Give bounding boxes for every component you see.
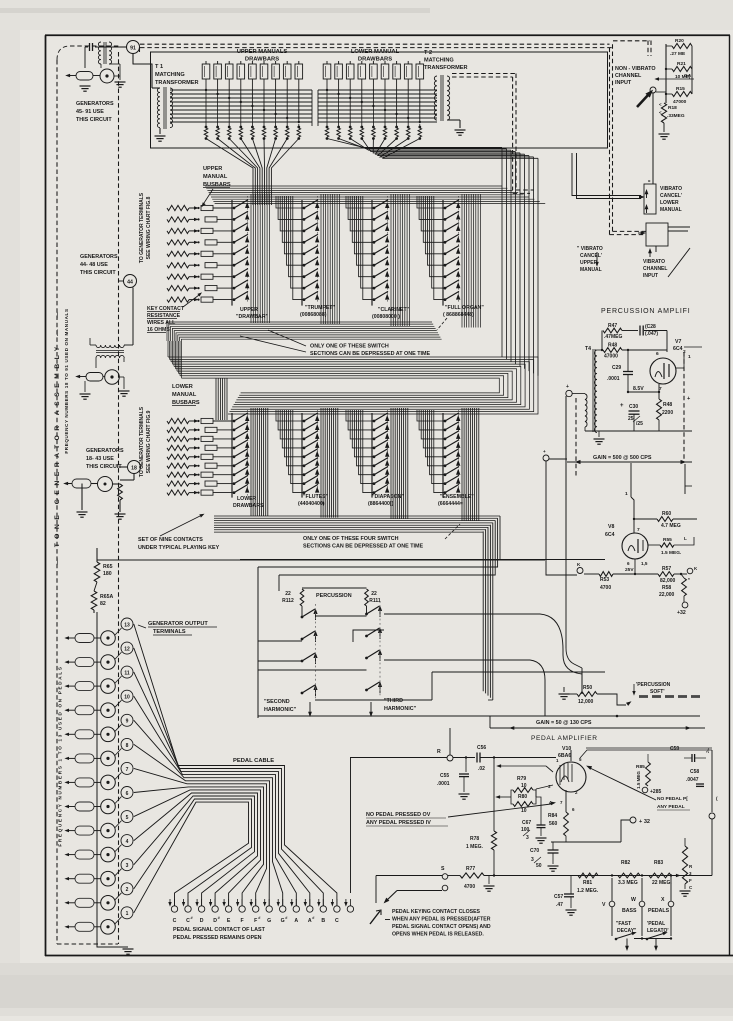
svg-text:1 MEG.: 1 MEG. <box>466 844 484 850</box>
svg-text:V: V <box>602 902 606 908</box>
svg-text:SECTIONS CAN BE DEPRESSED AT O: SECTIONS CAN BE DEPRESSED AT ONE TIME <box>303 544 424 550</box>
svg-text:R84: R84 <box>548 813 557 819</box>
svg-text:UPPER: UPPER <box>240 307 258 313</box>
svg-text:R79: R79 <box>517 776 526 782</box>
svg-text:TERMINALS: TERMINALS <box>153 629 186 635</box>
svg-text:D: D <box>200 918 204 924</box>
svg-text:R21: R21 <box>677 61 686 67</box>
svg-text:3: 3 <box>526 835 529 841</box>
svg-text:(00808000 ): (00808000 ) <box>372 314 400 320</box>
svg-text:VIBRATO: VIBRATO <box>660 186 682 192</box>
svg-text:F: F <box>689 878 692 883</box>
svg-text:.47MEG: .47MEG <box>604 334 622 340</box>
svg-text:"ENSEMBLE": "ENSEMBLE" <box>440 494 474 500</box>
svg-text:T 1: T 1 <box>155 64 163 70</box>
svg-text:4700: 4700 <box>464 884 475 890</box>
svg-text:SEE WIRING CHART FIG.9: SEE WIRING CHART FIG.9 <box>146 410 152 473</box>
svg-text:"DIAPASON": "DIAPASON" <box>372 494 404 500</box>
svg-text:GENERATOR OUTPUT: GENERATOR OUTPUT <box>148 621 208 627</box>
svg-text:100: 100 <box>521 827 530 833</box>
svg-text:(.047): (.047) <box>645 331 658 337</box>
svg-text:A: A <box>294 918 298 924</box>
svg-text:3: 3 <box>531 857 534 863</box>
svg-text:PERCUSSION AMPLIFI: PERCUSSION AMPLIFI <box>601 308 690 315</box>
svg-text:NON - VIBRATO: NON - VIBRATO <box>615 66 656 72</box>
svg-text:PEDAL SIGNAL CONTACT OPENS) AN: PEDAL SIGNAL CONTACT OPENS) AND <box>392 924 491 930</box>
svg-text:( 868868448): ( 868868448) <box>443 312 474 318</box>
svg-text:PEDAL SIGNAL CONTACT OF LAST: PEDAL SIGNAL CONTACT OF LAST <box>173 927 266 933</box>
svg-text:E: E <box>227 918 231 924</box>
svg-text:22: 22 <box>285 591 291 597</box>
svg-text:GENERATORS: GENERATORS <box>86 448 124 454</box>
svg-text:.02: .02 <box>478 766 485 772</box>
svg-text:C58: C58 <box>690 769 699 775</box>
svg-text:L: L <box>684 536 687 541</box>
svg-text:V10: V10 <box>562 746 571 752</box>
svg-text:.27 ME: .27 ME <box>670 51 686 57</box>
svg-text:ONLY ONE OF THESE FOUR SWITCH: ONLY ONE OF THESE FOUR SWITCH <box>303 536 399 542</box>
svg-text:PEDAL CABLE: PEDAL CABLE <box>233 758 274 764</box>
svg-text:UPPER: UPPER <box>580 260 598 266</box>
svg-text:44: 44 <box>127 280 133 286</box>
svg-text:HARMONIC": HARMONIC" <box>384 706 417 712</box>
svg-text:22 MEG.: 22 MEG. <box>652 880 672 886</box>
svg-text:R57: R57 <box>662 566 671 572</box>
svg-text:GENERATORS: GENERATORS <box>76 101 114 107</box>
svg-text:TO GENERATOR TERMINALS: TO GENERATOR TERMINALS <box>139 192 145 263</box>
svg-text:.47: .47 <box>556 902 563 908</box>
svg-text:R48: R48 <box>663 402 672 408</box>
svg-text:C56: C56 <box>477 745 486 751</box>
svg-text:CANCEL': CANCEL' <box>580 253 602 259</box>
svg-text:'PEDAL: 'PEDAL <box>647 921 665 927</box>
svg-text:3.3 MEG: 3.3 MEG <box>618 880 638 886</box>
svg-text:VIBRATO: VIBRATO <box>643 259 665 265</box>
svg-text:LOWER: LOWER <box>172 384 193 390</box>
svg-text:THIS CIRCUIT: THIS CIRCUIT <box>76 117 112 123</box>
svg-text:"FULL ORGAN": "FULL ORGAN" <box>445 305 484 311</box>
svg-text:C: C <box>335 918 339 924</box>
svg-text:,(: ,( <box>706 748 709 754</box>
svg-text:GENERATORS: GENERATORS <box>80 254 118 260</box>
svg-text:13: 13 <box>124 622 130 628</box>
svg-text:R85: R85 <box>636 764 645 770</box>
svg-text:WHEN ANY PEDAL IS PRESSED(AFTE: WHEN ANY PEDAL IS PRESSED(AFTER <box>392 917 491 923</box>
svg-text:4700: 4700 <box>600 585 611 591</box>
svg-text:82,000: 82,000 <box>660 578 676 584</box>
svg-text:*: * <box>688 577 690 583</box>
svg-text:SET OF NINE CONTACTS: SET OF NINE CONTACTS <box>138 537 203 543</box>
svg-text:DRAWBARS: DRAWBARS <box>233 503 264 509</box>
svg-text:5: 5 <box>126 815 129 821</box>
svg-text:6C4: 6C4 <box>605 532 615 538</box>
svg-text:BASS: BASS <box>622 908 637 914</box>
svg-text:FREQUENCY NUMBERS 18 TO 91 USE: FREQUENCY NUMBERS 18 TO 91 USED ON MANUA… <box>64 308 69 453</box>
svg-text:R77: R77 <box>466 866 475 872</box>
svg-text:<: < <box>659 102 662 107</box>
svg-text:WIRES ALL: WIRES ALL <box>147 320 176 326</box>
svg-text:18- 43 USE: 18- 43 USE <box>86 456 114 462</box>
svg-text:1: 1 <box>126 911 129 917</box>
svg-text:T4: T4 <box>585 346 591 352</box>
svg-text:.0047: .0047 <box>686 777 699 783</box>
svg-text:TRANSFORMER: TRANSFORMER <box>424 65 468 71</box>
svg-text:82: 82 <box>100 601 106 607</box>
svg-text:6BA6: 6BA6 <box>558 753 571 759</box>
svg-text:1.5 MEG.: 1.5 MEG. <box>661 550 681 556</box>
svg-text:8.5V: 8.5V <box>633 386 644 392</box>
svg-text:R80: R80 <box>518 794 527 800</box>
svg-text:44- 48 USE: 44- 48 USE <box>80 262 108 268</box>
svg-text:.33MEG: .33MEG <box>667 113 685 119</box>
svg-text:SOFT': SOFT' <box>650 689 665 695</box>
svg-text:ANY PEDAL: ANY PEDAL <box>657 804 685 810</box>
svg-text:+ 32: + 32 <box>639 819 650 825</box>
svg-text:<: < <box>659 110 662 115</box>
svg-text:CHANNEL: CHANNEL <box>615 73 642 79</box>
svg-text:UNDER TYPICAL PLAYING KEY: UNDER TYPICAL PLAYING KEY <box>138 545 220 551</box>
svg-text:" VIBRATO: " VIBRATO <box>577 246 603 252</box>
svg-text:+: + <box>566 384 569 390</box>
svg-text:.0001: .0001 <box>607 376 620 382</box>
svg-text:LOWER: LOWER <box>237 496 257 502</box>
svg-text:TRANSFORMER: TRANSFORMER <box>155 80 199 86</box>
svg-text:25: 25 <box>628 416 634 422</box>
svg-text:NO PEDAL PRESSED OV: NO PEDAL PRESSED OV <box>366 812 431 818</box>
svg-text:LOWER: LOWER <box>660 200 679 206</box>
svg-text:V8: V8 <box>608 524 614 530</box>
svg-text:THIS CIRCUIT: THIS CIRCUIT <box>80 270 116 276</box>
svg-text:V7: V7 <box>675 339 681 345</box>
svg-text:W: W <box>631 897 636 903</box>
svg-text:3: 3 <box>126 863 129 869</box>
svg-text:OPENS WHEN PEDAL IS RELEASED.: OPENS WHEN PEDAL IS RELEASED. <box>392 932 484 938</box>
svg-text:CHANNEL: CHANNEL <box>643 266 667 272</box>
svg-text:BUSBARS: BUSBARS <box>203 182 231 188</box>
svg-text:4.7 MEG: 4.7 MEG <box>661 523 681 529</box>
svg-text:R60: R60 <box>662 511 671 517</box>
svg-text:KEY CONTACT: KEY CONTACT <box>147 306 185 312</box>
svg-text:MATCHING: MATCHING <box>424 58 454 64</box>
svg-text:S: S <box>441 866 445 872</box>
svg-text:DRAWBARS: DRAWBARS <box>245 57 279 63</box>
svg-text:1.2 MEG.: 1.2 MEG. <box>577 888 599 894</box>
svg-text:2200: 2200 <box>662 410 673 416</box>
svg-text:22,000: 22,000 <box>659 592 675 598</box>
svg-text:22: 22 <box>371 591 377 597</box>
svg-text:18: 18 <box>131 466 137 472</box>
svg-text:R18: R18 <box>668 105 677 111</box>
svg-text:UPPER: UPPER <box>203 166 222 172</box>
svg-text:+: + <box>620 403 624 409</box>
svg-text:LOWER MANUAL: LOWER MANUAL <box>351 49 400 55</box>
svg-text:PEDAL KEYING CONTACT CLOSES: PEDAL KEYING CONTACT CLOSES <box>392 909 481 915</box>
svg-text:R112: R112 <box>282 598 294 604</box>
svg-text:B: B <box>321 918 325 924</box>
svg-text:"THIRD: "THIRD <box>384 698 403 704</box>
svg-text:C55: C55 <box>440 773 449 779</box>
svg-text:ANY PEDAL PRESSED IV: ANY PEDAL PRESSED IV <box>366 820 431 826</box>
svg-text:GAIN = 500 @ 500 CPS: GAIN = 500 @ 500 CPS <box>593 455 652 461</box>
svg-text:T 2: T 2 <box>424 50 432 56</box>
svg-text:R65: R65 <box>103 564 113 570</box>
svg-text:"DRAWBAR": "DRAWBAR" <box>236 314 269 320</box>
svg-text:R55: R55 <box>663 537 672 543</box>
svg-text:MANUAL: MANUAL <box>203 174 228 180</box>
svg-text:560: 560 <box>549 821 558 827</box>
svg-text:INPUT: INPUT <box>643 273 658 279</box>
svg-text:HARMONIC": HARMONIC" <box>264 707 297 713</box>
svg-text:R20: R20 <box>675 38 684 44</box>
svg-text:8: 8 <box>126 743 129 749</box>
svg-text:F: F <box>241 918 244 924</box>
svg-text:C29: C29 <box>612 365 621 371</box>
svg-text:RESISTANCE: RESISTANCE <box>147 313 181 319</box>
svg-text:CANCEL': CANCEL' <box>660 193 682 199</box>
svg-text:R81: R81 <box>583 880 592 886</box>
svg-text:50: 50 <box>536 863 542 869</box>
svg-text:R83: R83 <box>654 860 663 866</box>
svg-text:'PERCUSSION: 'PERCUSSION <box>636 682 671 688</box>
svg-text:+: + <box>543 449 546 454</box>
svg-text:+285: +285 <box>650 789 661 795</box>
svg-text:GA: GA <box>684 73 692 79</box>
svg-text:180: 180 <box>103 571 112 577</box>
svg-text:GAIN = 50 @ 130 CPS: GAIN = 50 @ 130 CPS <box>536 720 592 726</box>
svg-text:.0001: .0001 <box>437 781 450 787</box>
svg-text:C67: C67 <box>522 820 531 826</box>
svg-text:1,5: 1,5 <box>641 561 648 566</box>
svg-text:R47: R47 <box>608 323 617 329</box>
svg-text:C57: C57 <box>554 894 563 900</box>
svg-text:6: 6 <box>126 791 129 797</box>
svg-text:G: G <box>281 918 285 924</box>
svg-text:4: 4 <box>126 839 129 845</box>
svg-text:NO PEDAL P[: NO PEDAL P[ <box>657 796 688 802</box>
svg-text:10: 10 <box>124 695 130 701</box>
svg-text:R50: R50 <box>583 685 592 691</box>
svg-text:(00868088): (00868088) <box>300 312 327 318</box>
svg-text:(C28: (C28 <box>645 324 656 330</box>
svg-text:X: X <box>661 897 665 903</box>
svg-text:10: 10 <box>521 808 527 814</box>
svg-text:/25: /25 <box>636 421 643 427</box>
svg-text:47000: 47000 <box>604 354 618 360</box>
svg-text:SECTIONS CAN BE DEPRESSED AT O: SECTIONS CAN BE DEPRESSED AT ONE TIME <box>310 351 431 357</box>
svg-text:1: 1 <box>625 491 628 497</box>
svg-text:C30: C30 <box>629 404 638 410</box>
svg-text:MATCHING: MATCHING <box>155 72 185 78</box>
svg-text:PEDAL PRESSED REMAINS OPEN: PEDAL PRESSED REMAINS OPEN <box>173 935 262 941</box>
svg-text:"TRUMPET": "TRUMPET" <box>305 305 336 311</box>
svg-text:R65A: R65A <box>100 594 114 600</box>
svg-text:G: G <box>267 918 271 924</box>
svg-text:MANUAL: MANUAL <box>172 392 197 398</box>
svg-text:R: R <box>437 749 441 755</box>
svg-text:— TONE GENERATOR ASSEMBLY — —: — TONE GENERATOR ASSEMBLY — — <box>54 307 61 565</box>
svg-text:1: 1 <box>688 354 691 360</box>
svg-text:R58: R58 <box>662 585 671 591</box>
svg-text:6: 6 <box>627 561 630 566</box>
svg-text:PEDAL AMPLIFIER: PEDAL AMPLIFIER <box>531 735 598 742</box>
svg-text:6C4: 6C4 <box>673 346 683 352</box>
svg-text:FREQUENCY NUMBERS 1 TO 13 U: FREQUENCY NUMBERS 1 TO 13 USED ON PEDALS <box>58 665 63 846</box>
svg-text:(8864400[): (8864400[) <box>368 501 394 507</box>
svg-text:R111: R111 <box>369 598 381 604</box>
svg-text:7: 7 <box>637 527 640 533</box>
svg-text:45- 91 USE: 45- 91 USE <box>76 109 104 115</box>
svg-text:"FLUTES": "FLUTES" <box>303 494 329 500</box>
svg-text:MANUAL: MANUAL <box>580 267 602 273</box>
svg-text:12: 12 <box>124 647 130 653</box>
svg-text:TO GENERATOR TERMINALS: TO GENERATOR TERMINALS <box>139 406 145 477</box>
svg-text:91: 91 <box>130 46 136 52</box>
svg-text:R78: R78 <box>470 836 479 842</box>
svg-text:PERCUSSION: PERCUSSION <box>316 593 352 599</box>
svg-text:12,000: 12,000 <box>578 699 594 705</box>
svg-text:"FAST: "FAST <box>616 921 631 927</box>
svg-text:(44040400): (44040400) <box>298 501 325 507</box>
svg-text:"CLARINET": "CLARINET" <box>378 307 410 313</box>
svg-text:UPPER MANUALS: UPPER MANUALS <box>237 49 288 55</box>
svg-text:47000: 47000 <box>673 99 687 105</box>
svg-text:PEDALS: PEDALS <box>648 908 670 914</box>
svg-text:"SECOND: "SECOND <box>264 699 290 705</box>
svg-text:C59: C59 <box>670 746 679 752</box>
svg-text:THIS CIRCUIT: THIS CIRCUIT <box>86 464 122 470</box>
svg-text:F: F <box>254 918 257 924</box>
svg-text:C: C <box>173 918 177 924</box>
svg-text:R48: R48 <box>608 343 617 349</box>
svg-text:1.5 MEG: 1.5 MEG <box>636 771 641 789</box>
svg-text:INPUT: INPUT <box>615 80 632 86</box>
svg-text:25V: 25V <box>625 567 634 573</box>
svg-text:R82: R82 <box>621 860 630 866</box>
svg-text:(6664444=: (6664444= <box>438 501 463 507</box>
svg-text:MANUAL: MANUAL <box>660 207 682 213</box>
svg-text:C70: C70 <box>530 848 539 854</box>
svg-text:BUSBARS: BUSBARS <box>172 400 200 406</box>
svg-text:6: 6 <box>656 351 659 357</box>
svg-text:ONLY ONE OF THESE SWITCH: ONLY ONE OF THESE SWITCH <box>310 344 389 350</box>
svg-text:R53: R53 <box>600 577 609 583</box>
svg-text:R15: R15 <box>676 86 685 92</box>
svg-text:9: 9 <box>126 719 129 725</box>
svg-text:DRAWBARS: DRAWBARS <box>358 57 392 63</box>
svg-text:2: 2 <box>126 887 129 893</box>
svg-text:7: 7 <box>126 767 129 773</box>
svg-text:11: 11 <box>124 671 130 677</box>
svg-text:+32: +32 <box>677 610 686 616</box>
svg-text:SEE WIRING CHART FIG.8: SEE WIRING CHART FIG.8 <box>146 196 152 259</box>
